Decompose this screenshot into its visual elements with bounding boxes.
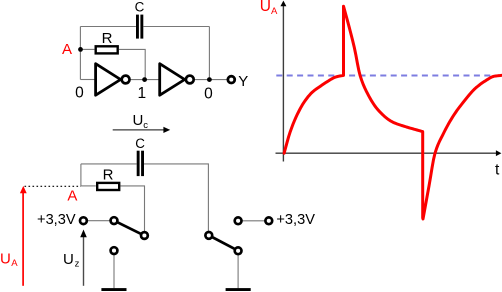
svg-text:0: 0 [75, 85, 84, 102]
svg-text:U: U [0, 251, 11, 268]
svg-text:+3,3V: +3,3V [276, 212, 315, 228]
svg-text:R: R [102, 30, 113, 47]
svg-text:0: 0 [204, 85, 213, 102]
svg-text:U: U [260, 0, 271, 15]
svg-text:c: c [143, 120, 148, 131]
svg-text:A: A [11, 258, 18, 269]
svg-text:t: t [495, 161, 500, 178]
svg-text:z: z [75, 259, 80, 270]
svg-text:C: C [135, 0, 145, 15]
svg-text:A: A [67, 188, 77, 205]
svg-text:R: R [103, 166, 114, 183]
svg-text:A: A [271, 6, 278, 17]
svg-text:U: U [133, 112, 144, 129]
svg-text:A: A [62, 41, 72, 58]
svg-text:+3,3V: +3,3V [37, 212, 76, 228]
svg-text:Y: Y [238, 73, 248, 90]
svg-text:1: 1 [137, 85, 146, 102]
svg-text:C: C [135, 136, 145, 151]
svg-text:U: U [63, 251, 74, 268]
